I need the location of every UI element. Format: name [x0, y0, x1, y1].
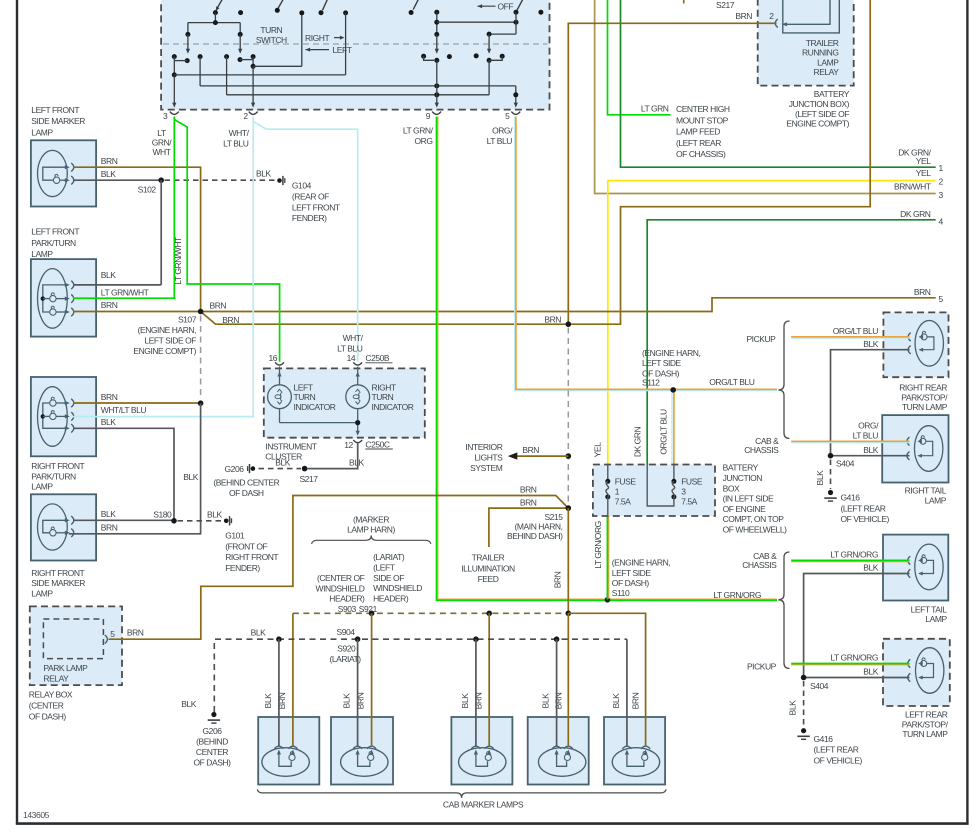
wire BRN park lamp relay to S215: [109, 484, 569, 639]
svg-text:INTERIOR: INTERIOR: [465, 442, 502, 452]
svg-text:3: 3: [939, 190, 944, 200]
svg-text:BLK: BLK: [183, 472, 198, 482]
svg-text:TURN LAMP: TURN LAMP: [902, 729, 948, 739]
svg-text:BLK: BLK: [863, 563, 878, 573]
svg-text:PICKUP: PICKUP: [747, 662, 777, 672]
turn switch wire: W4 contact link: [489, 54, 505, 61]
wire BLK right tail lamp to S404: [831, 445, 910, 456]
battery junction box caption (top right): [786, 89, 849, 128]
turn switch wire: pin 9 column: [434, 10, 439, 108]
label BRN at park lamp relay: [127, 628, 144, 638]
svg-text:BLK: BLK: [207, 509, 222, 519]
svg-text:G416: G416: [841, 493, 861, 503]
label WHT/LT BLU (pin 2 wire): [223, 128, 249, 149]
svg-text:ENGINE COMPT): ENGINE COMPT): [133, 346, 196, 356]
svg-text:LAMP: LAMP: [31, 127, 53, 137]
svg-text:BLK: BLK: [263, 693, 273, 709]
svg-text:OF ENGINE: OF ENGINE: [723, 504, 766, 514]
svg-text:BLK: BLK: [863, 667, 878, 677]
ground G206 (behind center of dash): [213, 464, 279, 498]
svg-text:BRN: BRN: [222, 315, 239, 325]
svg-text:LT GRN/WHT: LT GRN/WHT: [173, 237, 183, 285]
svg-text:BLK: BLK: [541, 693, 551, 709]
svg-text:BLK: BLK: [460, 693, 470, 709]
turn switch OFF blade contact B5: [514, 0, 524, 15]
right rear park/stop/turn lamp: [883, 312, 948, 377]
svg-text:SIDE MARKER: SIDE MARKER: [31, 116, 85, 126]
node BRN bus junction at S215 drop: [566, 611, 572, 617]
svg-text:CENTER: CENTER: [196, 747, 229, 757]
svg-text:BLK: BLK: [101, 417, 116, 427]
svg-text:OF CHASSIS): OF CHASSIS): [676, 149, 726, 159]
svg-text:7.5A: 7.5A: [681, 496, 697, 506]
trailer running lamp relay coil body: [782, 0, 839, 33]
svg-text:OF DASH): OF DASH): [612, 578, 650, 588]
wire 3 stub BRN/WHT label and number: [894, 182, 944, 200]
turn switch contact nodes (center row): [447, 53, 479, 59]
svg-text:YEL: YEL: [592, 442, 602, 457]
svg-text:JUNCTION BOX): JUNCTION BOX): [789, 99, 850, 109]
turn switch wire: bus bar y86: [200, 57, 516, 89]
svg-text:LAMP: LAMP: [31, 249, 53, 259]
svg-text:2: 2: [769, 11, 774, 21]
svg-text:G206: G206: [203, 726, 223, 736]
wire 1 stub DK GRN/YEL label and number: [898, 148, 943, 173]
svg-text:RIGHT: RIGHT: [372, 382, 396, 392]
svg-text:BLK: BLK: [611, 693, 621, 709]
fuse 1 7.5A: [605, 465, 636, 517]
right front side marker lamp: [31, 494, 96, 560]
wire harness boundary below S107 (dashed): [200, 316, 202, 400]
svg-text:WHT/: WHT/: [229, 128, 250, 138]
label LT GRN/ORG (pin 9 wire): [403, 126, 434, 147]
svg-text:(CENTER: (CENTER: [29, 701, 64, 711]
label LT GRN/WHT (vertical): [173, 237, 183, 285]
wire ORG/LT BLU to right tail lamp: [791, 421, 909, 443]
wire BRN trailer illumination feed stub: [489, 498, 568, 548]
node S904 splice on BLK bus: [337, 627, 361, 642]
svg-text:TURN: TURN: [372, 392, 394, 402]
wire LT GRN/ORG fuse 1 output to S110: [607, 516, 608, 600]
svg-text:LEFT SIDE: LEFT SIDE: [642, 358, 682, 368]
svg-text:TURN: TURN: [260, 25, 282, 35]
svg-text:WINDSHIELD: WINDSHIELD: [373, 583, 422, 593]
wire BLK bus to cab marker lamp 2: [357, 639, 359, 746]
trailer running lamp relay label: [802, 38, 839, 77]
turn switch movable blade contact B1: [213, 0, 223, 15]
wire LT GRN/WHT branch to cluster pin 16: [174, 120, 279, 362]
svg-text:BRN: BRN: [520, 484, 537, 494]
node BRN bus to cab marker lamp 3: [486, 611, 492, 747]
cluster right turn indicator bulb: [346, 367, 370, 436]
label ORG/LT BLU at S112 line: [709, 377, 755, 387]
instrument cluster box: [264, 368, 425, 437]
node BLK bus to cab marker lamp 3: [473, 636, 479, 746]
node BRN junction at S215 harness line: [544, 315, 571, 327]
svg-text:LEFT FRONT: LEFT FRONT: [31, 105, 79, 115]
wire BLK bus to cab marker lamp 5: [626, 639, 628, 746]
svg-text:BEHIND DASH): BEHIND DASH): [507, 531, 563, 541]
svg-text:COMPT, ON TOP: COMPT, ON TOP: [723, 514, 785, 524]
svg-text:G206: G206: [225, 464, 245, 474]
svg-text:(LEFT: (LEFT: [373, 563, 395, 573]
cab marker lamp 5 wire labels BLK BRN: [611, 692, 641, 709]
svg-text:S904: S904: [337, 627, 356, 637]
turn switch wire: contact drop x345: [343, 10, 348, 75]
svg-text:C250C: C250C: [365, 439, 390, 449]
svg-text:(LEFT REAR: (LEFT REAR: [676, 138, 721, 148]
cab marker lamps brace and caption: [257, 789, 666, 809]
label PICKUP (left rear): [747, 662, 777, 672]
svg-text:OF VEHICLE): OF VEHICLE): [841, 514, 890, 524]
label CAB & CHASSIS (left rear): [742, 551, 777, 570]
node S107: [133, 300, 239, 356]
turn switch wire: bus bar y95: [227, 57, 490, 98]
svg-text:SYSTEM: SYSTEM: [470, 463, 503, 473]
svg-text:LEFT TAIL: LEFT TAIL: [911, 604, 948, 614]
svg-text:C250B: C250B: [365, 353, 390, 363]
wire BRN trailer relay pin 2 feed: [568, 23, 776, 324]
svg-text:16: 16: [268, 353, 277, 363]
turn switch wire: pin 5 column: [513, 86, 518, 108]
wire ORG/LT BLU pin 5 to rear lamp brace: [515, 117, 777, 391]
svg-text:BLK: BLK: [256, 169, 271, 179]
svg-text:HEADER): HEADER): [373, 593, 409, 603]
svg-text:5: 5: [939, 294, 944, 304]
wire BLK right front park/turn to S180: [73, 417, 199, 521]
node S215: [507, 505, 571, 541]
right front park/turn lamp: [31, 377, 96, 456]
turn switch S/W body (battery side, cut off at top): [161, 0, 549, 110]
svg-text:5: 5: [110, 629, 115, 639]
connector C250C label: [365, 439, 392, 449]
svg-text:BLK: BLK: [349, 458, 364, 468]
svg-text:DK GRN: DK GRN: [632, 427, 642, 458]
ground G206 (marker lamps, behind center of dash): [181, 699, 231, 768]
svg-text:RIGHT REAR: RIGHT REAR: [899, 383, 947, 393]
svg-text:RUNNING: RUNNING: [802, 48, 839, 58]
svg-text:BOX: BOX: [723, 483, 740, 493]
svg-text:BLK: BLK: [251, 628, 266, 638]
svg-text:LIGHTS: LIGHTS: [474, 452, 503, 462]
left front park/turn lamp caption: [31, 227, 79, 260]
svg-text:LT GRN/WHT: LT GRN/WHT: [101, 287, 149, 297]
svg-text:FENDER): FENDER): [225, 563, 260, 573]
svg-text:(FRONT OF: (FRONT OF: [225, 541, 267, 551]
turn switch wire: pin 2 column: [251, 57, 256, 108]
turn switch wire: link y66 to top contact: [253, 10, 304, 66]
svg-text:BLK: BLK: [815, 470, 825, 486]
turn switch wire: OFF column + y34 link: [487, 12, 516, 36]
instrument cluster caption: [265, 442, 316, 462]
svg-text:RIGHT FRONT: RIGHT FRONT: [31, 568, 84, 578]
label LT GRN/ORG (vertical, fuse output): [593, 521, 603, 569]
cab marker lamp 4 wire labels BLK BRN: [541, 692, 564, 709]
svg-text:GRN/: GRN/: [152, 138, 173, 148]
cluster wire: indicators common return: [280, 420, 361, 425]
svg-text:G101: G101: [225, 531, 245, 541]
turn switch wire: W2 contact link: [240, 59, 253, 61]
diagram number 143605: [23, 810, 50, 820]
svg-text:2: 2: [243, 111, 248, 121]
node S112: [642, 348, 700, 393]
svg-text:TRAILER: TRAILER: [806, 38, 839, 48]
wire BRN bus to cab marker lamp 2: [371, 613, 373, 746]
wire BRN left front side marker to S107: [73, 156, 201, 312]
svg-text:5: 5: [505, 111, 510, 121]
svg-text:BRN: BRN: [552, 571, 562, 588]
node S217 (behind dash): [299, 466, 318, 484]
svg-text:PARK/TURN: PARK/TURN: [31, 238, 76, 248]
svg-text:G416: G416: [814, 734, 834, 744]
cab marker lamp 4: [528, 717, 589, 785]
cab marker lamp 1 wire labels BLK BRN: [263, 692, 287, 709]
left tail lamp: [883, 535, 948, 601]
svg-text:LT GRN/ORG: LT GRN/ORG: [713, 590, 761, 600]
node BLK bus to cab marker lamp 1: [276, 636, 282, 746]
svg-text:CENTER HIGH: CENTER HIGH: [676, 104, 730, 114]
wire BLK S102 to G104 (dashed): [165, 169, 277, 181]
svg-text:(BEHIND: (BEHIND: [196, 737, 228, 747]
svg-text:(BEHIND CENTER: (BEHIND CENTER: [213, 478, 279, 488]
svg-text:(REAR OF: (REAR OF: [292, 192, 329, 202]
wire BRN bus to cab marker lamp 4: [567, 613, 569, 746]
svg-text:INDICATOR: INDICATOR: [294, 402, 336, 412]
svg-text:BRN/WHT: BRN/WHT: [894, 182, 931, 192]
svg-text:WHT/: WHT/: [343, 333, 364, 343]
wire BLK S180 to G101 (dashed): [178, 509, 223, 520]
svg-text:BLK: BLK: [863, 339, 878, 349]
svg-text:LAMP: LAMP: [31, 588, 53, 598]
svg-text:MOUNT STOP: MOUNT STOP: [676, 115, 729, 125]
svg-text:LT GRN/ORG: LT GRN/ORG: [830, 550, 878, 560]
cluster pin 14 connector C250B: [347, 353, 362, 365]
svg-text:OF DASH): OF DASH): [193, 758, 231, 768]
svg-text:1: 1: [615, 487, 620, 497]
cluster pin 16 connector C250B: [268, 353, 283, 365]
wire BLK S217 to G206 (dashed): [259, 458, 302, 469]
left front park/turn lamp: [31, 259, 96, 337]
cluster left turn indicator label: [294, 382, 336, 412]
right front side marker lamp caption: [31, 568, 85, 598]
wire BLK cluster pin 12 to S217: [308, 444, 365, 469]
label ORG/LT BLU (vertical, fuse 3 wire): [659, 409, 669, 455]
svg-text:S920: S920: [337, 644, 356, 654]
wire ORG/LT BLU to right rear park/stop/turn lamp: [791, 326, 909, 338]
battery junction box (fuse box): [593, 465, 715, 517]
svg-text:RIGHT: RIGHT: [305, 33, 329, 43]
svg-text:ORG: ORG: [414, 136, 432, 146]
turn switch movable blade contact B3: [319, 0, 329, 15]
svg-text:OF DASH): OF DASH): [29, 712, 67, 722]
fuse 3 7.5A: [647, 465, 703, 507]
svg-text:S112: S112: [642, 378, 660, 388]
svg-text:LT BLU: LT BLU: [487, 136, 513, 146]
svg-text:LAMP: LAMP: [925, 614, 947, 624]
svg-text:9: 9: [426, 111, 431, 121]
turn switch pin 9: [426, 111, 441, 121]
svg-text:RIGHT FRONT: RIGHT FRONT: [225, 552, 278, 562]
svg-text:BATTERY: BATTERY: [723, 463, 759, 473]
relay box caption: [29, 689, 73, 721]
svg-text:1: 1: [939, 163, 944, 173]
svg-text:BRN: BRN: [735, 11, 752, 21]
svg-text:PARK/TURN: PARK/TURN: [31, 471, 76, 481]
svg-text:BRN: BRN: [631, 692, 641, 709]
svg-text:(MARKER: (MARKER: [353, 514, 389, 524]
svg-text:LAMP FEED: LAMP FEED: [676, 127, 720, 137]
turn switch label: [256, 25, 287, 45]
svg-text:RELAY BOX: RELAY BOX: [29, 689, 73, 699]
svg-text:ORG/: ORG/: [858, 421, 879, 431]
svg-text:ENGINE COMPT): ENGINE COMPT): [786, 119, 849, 129]
svg-text:LEFT SIDE: LEFT SIDE: [612, 568, 652, 578]
turn switch wiper W1 (left): [185, 23, 191, 64]
cab marker lamp 2 wire labels BLK BRN: [342, 692, 366, 709]
svg-text:LT BLU: LT BLU: [853, 430, 879, 440]
svg-text:JUNCTION: JUNCTION: [723, 473, 763, 483]
svg-text:PARK LAMP: PARK LAMP: [43, 663, 88, 673]
svg-text:BRN: BRN: [554, 692, 564, 709]
label ORG/LT BLU (pin 5 wire): [487, 126, 513, 147]
turn switch OFF position label: [478, 2, 514, 12]
svg-text:(CENTER OF: (CENTER OF: [317, 573, 365, 583]
svg-text:WHT/LT BLU: WHT/LT BLU: [101, 405, 147, 415]
svg-text:BLK: BLK: [101, 270, 116, 280]
svg-text:7.5A: 7.5A: [615, 496, 631, 506]
node S404 (right): [828, 453, 855, 469]
svg-text:PARK/STOP/: PARK/STOP/: [902, 719, 949, 729]
cluster right turn indicator label: [372, 382, 414, 412]
wire 4 stub DK GRN to fuse 3: [647, 209, 943, 465]
svg-text:(MAIN HARN,: (MAIN HARN,: [515, 522, 563, 532]
trailer illumination feed label: [461, 553, 515, 584]
svg-text:BRN: BRN: [101, 392, 118, 402]
svg-text:(ENGINE HARN,: (ENGINE HARN,: [138, 325, 196, 335]
svg-text:FUSE: FUSE: [681, 477, 703, 487]
park lamp relay pin 5: [105, 629, 116, 643]
svg-text:BLK: BLK: [788, 700, 798, 716]
left front side marker lamp: [31, 140, 96, 206]
turn switch pin 2: [243, 111, 257, 121]
svg-text:LT GRN/ORG: LT GRN/ORG: [830, 653, 878, 663]
svg-text:BLK: BLK: [181, 699, 196, 709]
turn switch wiper W4 (right): [487, 34, 492, 95]
left rear park/stop/turn lamp: [883, 639, 950, 706]
svg-text:BLK: BLK: [342, 693, 352, 709]
turn switch wire: W3 contact link: [421, 54, 434, 61]
wire WHT/LT BLU pin 2 to right front park/turn lamp: [73, 117, 253, 417]
svg-text:BLK: BLK: [275, 458, 290, 468]
svg-text:ORG/: ORG/: [492, 126, 513, 136]
node S110: [605, 558, 671, 603]
svg-text:2: 2: [939, 177, 944, 187]
wire BRN right front park/turn lamp to node: [73, 392, 203, 406]
battery junction box caption: [723, 463, 788, 535]
label DK GRN (vertical): [632, 427, 642, 458]
svg-text:LEFT: LEFT: [294, 382, 313, 392]
svg-text:TURN: TURN: [294, 392, 316, 402]
svg-text:BRN: BRN: [101, 156, 118, 166]
turn switch movable blade contact B4: [409, 0, 419, 15]
wire BRN bus to cab marker lamp 5: [568, 613, 645, 746]
left rear park/stop/turn lamp caption: [902, 710, 949, 740]
label LT GRN/WHT (pin 3 wire): [152, 128, 173, 157]
svg-text:SWITCH: SWITCH: [256, 35, 287, 45]
right tail lamp: [882, 415, 948, 482]
node S180: [153, 509, 177, 523]
turn switch pin 5: [505, 111, 520, 121]
svg-text:RELAY: RELAY: [814, 67, 840, 77]
svg-text:RELAY: RELAY: [43, 673, 69, 683]
turn switch wire: bus bar y75: [174, 74, 345, 76]
left tail lamp caption: [911, 604, 948, 624]
wire BLK left rear lamp to S404: [804, 667, 910, 678]
svg-text:(ENGINE HARN,: (ENGINE HARN,: [612, 558, 670, 568]
splice group labels S903 S921: [316, 552, 423, 614]
label PICKUP (right rear): [746, 334, 776, 344]
turn switch wire: W1 contact link: [174, 60, 187, 62]
wire BLK S102 to left front park/turn lamp: [73, 180, 161, 285]
park lamp relay inner body: [43, 619, 103, 683]
turn switch wiper W2: [238, 23, 243, 63]
svg-text:BRN: BRN: [522, 445, 539, 455]
svg-text:S180: S180: [153, 509, 172, 519]
wire BRN S107 riser to top right: [201, 0, 871, 324]
wire 2 stub YEL: [608, 168, 944, 464]
label WHT/LT BLU above pin 14: [337, 333, 363, 354]
svg-text:LAMP: LAMP: [925, 495, 947, 505]
right front park/turn lamp caption: [31, 461, 84, 491]
turn switch wire: pin 3 column: [172, 57, 177, 108]
svg-text:LT GRN/ORG: LT GRN/ORG: [593, 521, 603, 569]
svg-text:HEADER): HEADER): [329, 594, 365, 604]
svg-text:ORG/LT BLU: ORG/LT BLU: [709, 377, 755, 387]
label CAB & CHASSIS (right rear): [744, 436, 779, 455]
svg-text:BRN: BRN: [914, 287, 931, 297]
svg-text:ORG/LT BLU: ORG/LT BLU: [833, 326, 879, 336]
node S903/S921 splice on BRN bus: [369, 611, 375, 617]
wire BRN left front park/turn lamp to S107: [73, 300, 201, 311]
wire DK GRN/YEL feed from top to stub 1: [621, 0, 936, 167]
wire 5 stub BRN from S107: [201, 287, 944, 312]
svg-text:S110: S110: [612, 588, 630, 598]
svg-text:S215: S215: [544, 512, 563, 522]
wire harness dashed column below BRN junction: [567, 328, 569, 505]
svg-text:(LEFT REAR: (LEFT REAR: [814, 745, 859, 755]
wire LT GRN/ORG pin 9 to S110 feed line: [437, 117, 778, 601]
svg-text:14: 14: [347, 353, 356, 363]
svg-text:INDICATOR: INDICATOR: [372, 402, 414, 412]
right rear park/stop/turn lamp caption: [899, 383, 948, 413]
svg-text:WHT: WHT: [152, 147, 170, 157]
svg-text:ILLUMINATION: ILLUMINATION: [461, 563, 515, 573]
svg-text:LEFT REAR: LEFT REAR: [905, 710, 948, 720]
ground G104: [277, 176, 340, 223]
label BRN at trailer relay pin 2: [735, 11, 752, 21]
svg-text:YEL: YEL: [916, 156, 931, 166]
svg-text:BLK: BLK: [101, 509, 116, 519]
wire BRN/WHT feed from top to stub 3: [595, 0, 936, 194]
wire right front side marker BRN riser: [69, 403, 201, 534]
right rear lamps brace (pickup / cab and chassis): [778, 321, 789, 439]
cab marker lamp 2: [331, 717, 393, 785]
connector C250B label: [365, 353, 392, 363]
interior lights system label: [465, 442, 503, 473]
svg-text:BRN: BRN: [544, 315, 561, 325]
turn switch wire: upper link bar: [188, 13, 240, 26]
turn switch RIGHT/LEFT travel guide: [163, 33, 548, 55]
